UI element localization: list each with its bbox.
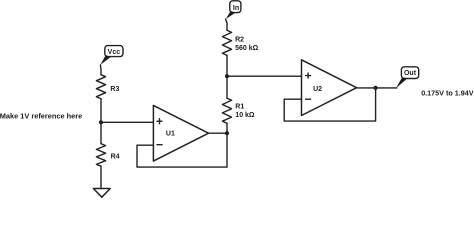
svg-text:10 kΩ: 10 kΩ: [235, 112, 255, 119]
ground: [93, 189, 110, 198]
net flag In: [226, 1, 241, 19]
wire: [101, 121, 153, 123]
op-amp U2: [302, 60, 357, 116]
svg-text:Make 1V reference here: Make 1V reference here: [0, 111, 82, 120]
svg-text:Vcc: Vcc: [108, 49, 121, 56]
node A junction: [225, 74, 229, 78]
wire: [100, 166, 102, 188]
node junction: [225, 131, 229, 135]
node junction: [374, 86, 378, 90]
resistor R1: [222, 98, 231, 123]
wire: [357, 87, 397, 89]
svg-text:Out: Out: [404, 70, 417, 77]
svg-text:R1: R1: [235, 104, 244, 111]
resistor R4: [96, 144, 105, 167]
wire: [226, 19, 227, 30]
node junction: [99, 120, 103, 124]
wire U2 feedback: [284, 88, 375, 121]
svg-text:R4: R4: [111, 154, 120, 161]
wire: [100, 99, 102, 144]
wire: [226, 55, 228, 98]
wire: [227, 75, 302, 77]
op-amp U1: [153, 105, 208, 161]
wire: [99, 65, 102, 75]
svg-text:U1: U1: [166, 131, 175, 138]
net flag Out: [396, 67, 419, 89]
svg-text:0.175V to 1.94V: 0.175V to 1.94V: [421, 89, 474, 98]
wire: [226, 123, 228, 133]
wire: [209, 132, 228, 134]
resistor R3: [96, 75, 105, 99]
svg-text:R2: R2: [235, 36, 244, 43]
resistor R2: [222, 30, 231, 55]
svg-text:R3: R3: [110, 86, 119, 93]
svg-text:U2: U2: [313, 86, 322, 93]
svg-text:560 kΩ: 560 kΩ: [235, 45, 259, 52]
wire U1 feedback: [137, 133, 227, 167]
svg-text:In: In: [233, 5, 239, 12]
net flag Vcc: [100, 46, 123, 65]
